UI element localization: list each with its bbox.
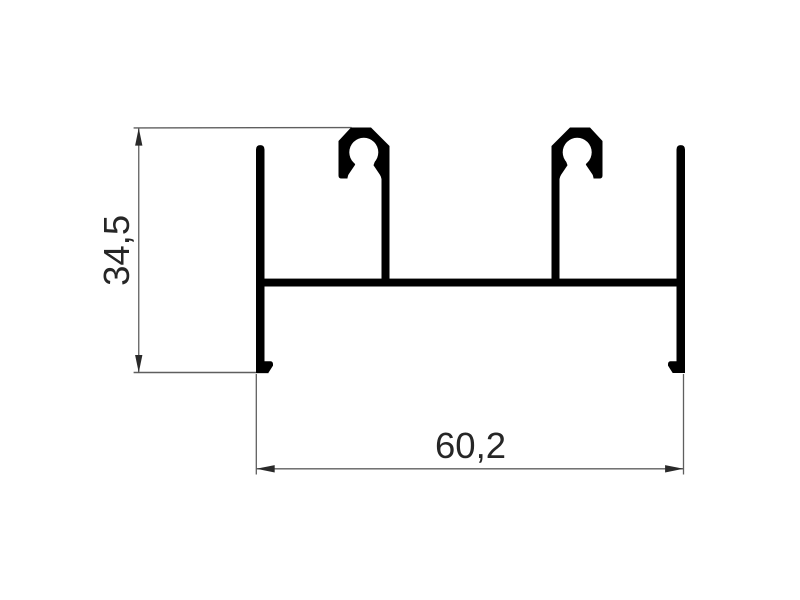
profile: horizontal crossbar (256, 279, 685, 287)
arrow left (60,2) (256, 465, 274, 472)
svg-text:60,2: 60,2 (435, 425, 506, 466)
vertical dimension line 34,5 (138, 128, 140, 372)
arrow right (60,2) (665, 465, 683, 472)
keyhole slot (white) (347, 159, 381, 184)
profile: right vertical wall with inward foot (mirror) (668, 145, 685, 373)
arrow up (34,5 top) (135, 128, 142, 146)
keyhole circle (white) (563, 138, 592, 167)
horizontal dimension line 60,2 (256, 468, 683, 470)
extension line bottom left (60,2) (255, 374, 257, 475)
profile: left vertical wall with inward foot (256, 145, 273, 373)
dimension extension line bottom-left (34,5) (134, 372, 269, 374)
keyhole circle (white) (349, 138, 378, 167)
dimension extension line top (34,5) (134, 127, 352, 129)
profile: right screw-channel hook with stem (mirror) (552, 128, 603, 287)
extension line bottom right (60,2) (683, 374, 685, 475)
keyhole slot (white) (560, 159, 594, 184)
profile: left screw-channel hook with stem (339, 128, 390, 287)
arrow down (34,5 bottom) (135, 355, 142, 373)
svg-text:34,5: 34,5 (96, 215, 137, 286)
